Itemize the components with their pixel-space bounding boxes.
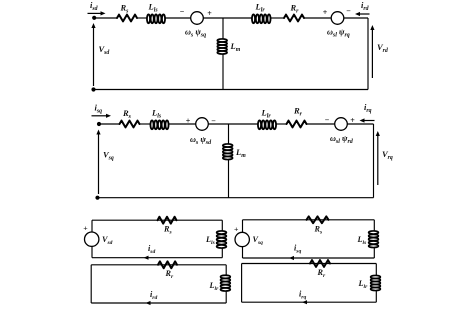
svg-text:+: + <box>83 224 88 233</box>
current arrow i_sq on loop C bottom wire <box>289 256 294 260</box>
wire loop A left lower <box>91 246 93 257</box>
svg-text:isd: isd <box>148 244 155 255</box>
svg-text:+: + <box>234 225 239 234</box>
wire loop D bottom <box>242 301 377 303</box>
voltage source V_sq (loop C) <box>235 232 249 246</box>
wire loop A right upper <box>221 220 223 230</box>
svg-text:Vsq: Vsq <box>103 150 114 162</box>
wire loop D top <box>242 263 377 265</box>
wire loop C left upper <box>242 220 244 232</box>
voltage arrow V_sq left side <box>98 134 100 195</box>
svg-text:Rs: Rs <box>120 3 130 15</box>
wire bottom (q-axis) <box>98 197 374 199</box>
resistor R_r (loop B) <box>158 261 177 268</box>
junction wire magnetizing branch top (d-axis) <box>222 18 224 39</box>
wire loop B top <box>91 264 226 266</box>
svg-text:Rs: Rs <box>314 225 323 236</box>
node stator terminal top-left (q-axis) <box>97 122 101 126</box>
current arrow i_sd <box>88 12 102 14</box>
svg-text:+: + <box>186 117 191 126</box>
svg-text:isq: isq <box>95 103 103 115</box>
voltage arrow V_rq <box>377 135 379 185</box>
svg-text:Lls: Lls <box>151 108 162 120</box>
wire source to node and to L_lr (d-axis) <box>203 17 251 19</box>
wire loop B right upper <box>225 265 227 275</box>
wire magnetizing branch bottom (d-axis) <box>222 55 224 91</box>
svg-text:Lls: Lls <box>148 2 159 14</box>
wire loop D right lower <box>375 291 377 302</box>
svg-text:Llr: Llr <box>255 2 266 14</box>
current arrow i_sd on loop A bottom wire <box>144 256 149 260</box>
svg-text:Lls: Lls <box>357 235 367 246</box>
wire bottom (d-axis) <box>94 89 369 91</box>
inductor L_lr (loop D) <box>371 275 381 278</box>
voltage arrow V_rd <box>371 29 373 78</box>
inductor L_lr (d-axis rotor leakage) <box>252 14 255 23</box>
svg-text:Lm: Lm <box>230 41 241 53</box>
svg-text:Vsd: Vsd <box>102 235 113 246</box>
svg-text:irq: irq <box>299 290 306 301</box>
svg-text:Vsd: Vsd <box>99 44 110 56</box>
wire loop D right upper <box>375 264 377 276</box>
wire source to top-right corner (d-axis) <box>344 17 368 19</box>
wire loop D left <box>241 264 243 303</box>
resistor R_r (d-axis rotor) <box>284 15 304 22</box>
svg-text:Lm: Lm <box>235 147 246 159</box>
resistor R_s (d-axis stator) <box>117 15 137 22</box>
svg-text:ωsl ψrd: ωsl ψrd <box>330 134 354 145</box>
current arrow i_rd on loop B bottom wire <box>146 301 151 305</box>
resistor R_s (q-axis stator) <box>120 121 140 128</box>
voltage source omega_sl psi_rq (d-axis) <box>331 12 344 25</box>
current arrow i_sq <box>92 115 108 117</box>
wire right side (d-axis) <box>367 18 369 90</box>
svg-text:Rs: Rs <box>163 225 172 236</box>
wire loop A bottom <box>92 257 222 259</box>
current arrow i_rq on loop D bottom wire <box>302 300 307 304</box>
wire R_r to source (d-axis rotor) <box>304 17 331 19</box>
svg-text:isd: isd <box>90 0 98 12</box>
node stator terminal bottom-left (q-axis) <box>95 196 99 200</box>
svg-text:ωs ψsq: ωs ψsq <box>185 28 206 39</box>
junction wire magnetizing branch top (q-axis) <box>228 124 230 144</box>
svg-text:Llr: Llr <box>358 279 369 290</box>
wire source to top-right corner (q-axis) <box>347 123 373 125</box>
current arrow i_rd <box>359 13 370 15</box>
wire R_s to L_ls (q-axis) <box>140 123 151 125</box>
resistor R_s (loop C) <box>307 216 329 223</box>
svg-text:Vrd: Vrd <box>377 42 388 54</box>
svg-text:ωsl ψrq: ωsl ψrq <box>327 28 350 39</box>
svg-text:Rs: Rs <box>122 108 132 120</box>
resistor R_s (loop A) <box>158 217 177 224</box>
svg-text:Rr: Rr <box>165 269 174 280</box>
wire top-left to R_s (d-axis) <box>95 17 118 19</box>
wire loop C top <box>243 219 375 221</box>
inductor L_lr (q-axis rotor leakage) <box>258 120 261 129</box>
svg-text:Rr: Rr <box>293 106 303 118</box>
svg-text:Vsq: Vsq <box>253 235 264 246</box>
svg-text:irq: irq <box>364 102 372 114</box>
svg-text:−: − <box>325 115 330 124</box>
wire loop C right lower <box>373 248 375 258</box>
wire L_ls to source (d-axis) <box>166 17 191 19</box>
resistor R_r (loop D) <box>310 260 330 267</box>
wire R_r to source (q-axis rotor) <box>307 123 335 125</box>
wire loop B right lower <box>225 292 227 304</box>
svg-text:+: + <box>207 9 212 18</box>
svg-text:Llr: Llr <box>261 108 272 120</box>
voltage arrow V_sd left side <box>93 27 95 86</box>
svg-text:Rr: Rr <box>317 268 326 279</box>
current arrow i_rq <box>364 120 375 122</box>
svg-text:+: + <box>323 8 328 17</box>
svg-text:Vrq: Vrq <box>382 149 393 161</box>
wire L_lr to R_r (q-axis) <box>277 123 287 125</box>
wire loop A top <box>92 219 222 221</box>
wire loop C right upper <box>373 220 375 231</box>
svg-text:Rr: Rr <box>290 3 300 15</box>
wire magnetizing branch bottom (q-axis) <box>228 160 230 198</box>
inductor L_lr (loop B) <box>221 275 231 278</box>
svg-text:Llr: Llr <box>209 281 220 292</box>
inductor L_ls (loop A) <box>217 231 227 234</box>
inductor L_ls (loop C) <box>369 231 379 234</box>
wire loop B left <box>90 265 92 303</box>
node stator terminal bottom-left (d-axis) <box>91 87 95 91</box>
resistor R_r (q-axis rotor) <box>287 121 307 128</box>
svg-text:isq: isq <box>294 244 301 255</box>
svg-text:−: − <box>346 7 351 16</box>
wire right side (q-axis) <box>373 124 375 198</box>
wire top-left to R_s (q-axis) <box>99 123 120 125</box>
voltage source V_sd (loop A) <box>85 232 99 246</box>
wire R_s to L_ls (d-axis) <box>137 17 147 19</box>
svg-text:−: − <box>180 7 185 16</box>
voltage source omega_sl psi_rd (q-axis) <box>335 118 348 131</box>
wire loop A left upper <box>91 220 93 232</box>
inductor L_m (q-axis magnetizing) <box>223 144 233 147</box>
node stator terminal top-left (d-axis) <box>92 16 96 20</box>
svg-text:ωs ψsd: ωs ψsd <box>190 135 212 146</box>
wire L_lr to R_r (d-axis) <box>271 17 284 19</box>
wire loop B bottom <box>91 302 226 304</box>
wire L_ls to source (q-axis) <box>169 123 196 125</box>
wire source to node and to L_lr (q-axis) <box>208 123 257 125</box>
wire loop C bottom <box>243 257 375 259</box>
svg-text:ird: ird <box>361 0 369 12</box>
svg-text:ird: ird <box>150 290 157 301</box>
inductor L_ls (q-axis stator leakage) <box>150 120 153 129</box>
wire loop A right lower <box>221 249 223 258</box>
voltage source omega_s psi_sd (q-axis) <box>196 118 209 131</box>
inductor L_m (d-axis magnetizing) <box>217 39 227 42</box>
inductor L_ls (d-axis stator leakage) <box>147 14 150 23</box>
svg-text:Lls: Lls <box>205 235 215 246</box>
voltage source omega_s psi_sq (d-axis) <box>191 12 204 25</box>
wire loop C left lower <box>242 247 244 258</box>
